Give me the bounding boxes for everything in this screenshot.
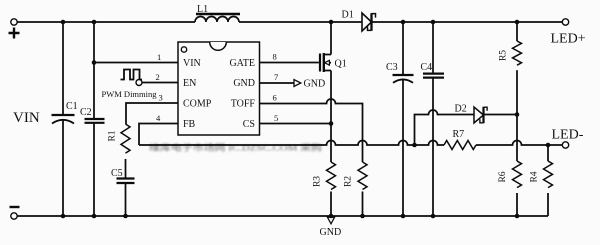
wire pin1 VIN <box>94 62 178 64</box>
svg-text:EN: EN <box>183 78 196 89</box>
wire pin8 GATE <box>260 62 319 64</box>
diode D1 <box>342 10 376 32</box>
node bottom rail R3 <box>329 214 334 219</box>
wire pin2 EN <box>142 82 178 84</box>
ground arrow <box>327 217 334 224</box>
wire top rail mid <box>239 21 362 23</box>
IC U1 box <box>178 42 260 135</box>
wire R7 to LED- <box>476 141 562 146</box>
svg-text:C4: C4 <box>421 62 433 73</box>
IC pin1 indicator dot <box>181 47 186 52</box>
wire pin7 GND <box>260 82 295 84</box>
node D2 cathode on R5 line <box>515 112 520 117</box>
svg-text:Q1: Q1 <box>335 59 347 70</box>
inductor L1 <box>195 4 240 22</box>
node bottom rail R2 <box>360 214 365 219</box>
svg-text:R1: R1 <box>108 130 118 141</box>
svg-text:VIN: VIN <box>183 58 201 69</box>
wire D2 anode branch <box>415 110 475 145</box>
resistor R2 <box>344 162 368 190</box>
wire pin6 TOFF <box>260 99 363 162</box>
terminal LED+ <box>562 19 568 25</box>
capacitor C1 <box>52 22 78 216</box>
terminal VIN- <box>11 213 17 219</box>
svg-text:GND: GND <box>233 78 255 89</box>
node bottom rail C2 <box>92 214 97 219</box>
svg-text:LED+: LED+ <box>551 32 586 47</box>
node D2 anode on FB line <box>412 143 417 148</box>
svg-text:R6: R6 <box>498 171 508 182</box>
svg-text:维库电子市场网 IC.DZSC.COM 采购: 维库电子市场网 IC.DZSC.COM 采购 <box>149 143 322 153</box>
wire Q1 drain to rail <box>330 22 332 55</box>
plus sign <box>9 28 20 39</box>
diode D2 <box>455 104 488 124</box>
svg-text:PWM Dimming: PWM Dimming <box>102 89 158 99</box>
resistor R5 <box>499 22 522 161</box>
terminal LED- <box>562 142 568 148</box>
wire R2 to rail <box>362 192 364 217</box>
minus sign <box>10 206 20 208</box>
resistor R6 <box>498 161 522 216</box>
svg-text:C3: C3 <box>386 62 398 73</box>
wire pin3 COMP <box>126 103 178 124</box>
capacitor C4 <box>421 22 445 216</box>
GND arrow pin7 <box>294 80 301 87</box>
wire FB routing / LED- line <box>139 141 444 146</box>
wire R1 to C5 <box>125 159 127 179</box>
svg-text:R4: R4 <box>530 171 540 182</box>
node top rail C2 <box>92 20 97 25</box>
node top rail R5 <box>515 20 520 25</box>
svg-text:7: 7 <box>274 72 278 82</box>
svg-text:5: 5 <box>274 113 278 123</box>
svg-text:FB: FB <box>183 119 196 130</box>
svg-text:R5: R5 <box>499 50 509 61</box>
svg-text:VIN: VIN <box>13 110 40 126</box>
node bottom rail C3 <box>401 214 406 219</box>
wire Q1 source / CS / R3 vertical <box>330 71 332 163</box>
svg-text:R3: R3 <box>313 176 323 187</box>
svg-text:6: 6 <box>273 93 277 103</box>
svg-text:R2: R2 <box>344 176 354 187</box>
svg-text:GND: GND <box>304 79 326 90</box>
EN input terminal circle <box>136 80 142 86</box>
capacitor C5 <box>111 168 135 216</box>
svg-text:D1: D1 <box>342 10 354 21</box>
wire D2 cathode <box>484 114 518 116</box>
svg-text:LED-: LED- <box>552 128 584 143</box>
resistor R7 <box>444 129 476 150</box>
svg-text:D2: D2 <box>455 104 467 115</box>
node bottom rail C4 <box>431 214 436 219</box>
resistor R4 <box>530 145 553 216</box>
node bottom rail R6 <box>515 214 520 219</box>
svg-text:2: 2 <box>156 72 160 82</box>
resistor R1 <box>108 124 131 153</box>
node top rail C3 <box>401 20 406 25</box>
capacitor C3 <box>386 22 414 216</box>
wire pin5 CS <box>260 123 332 125</box>
node bottom rail C5 <box>123 214 128 219</box>
svg-text:8: 8 <box>273 52 277 62</box>
svg-text:C5: C5 <box>111 168 123 179</box>
node VIN pin tap <box>92 60 97 65</box>
svg-text:3: 3 <box>159 93 163 103</box>
node top rail C1 <box>61 20 66 25</box>
node CS junction <box>329 121 334 126</box>
wire top rail right <box>373 21 563 23</box>
PWM waveform symbol <box>121 70 143 80</box>
svg-text:COMP: COMP <box>183 99 212 110</box>
node top rail C4 <box>431 20 436 25</box>
wire pin4 FB <box>139 124 178 146</box>
IC pin names <box>183 58 255 130</box>
svg-text:C2: C2 <box>80 107 92 118</box>
wire bottom rail <box>17 215 548 217</box>
svg-text:TOFF: TOFF <box>231 99 256 110</box>
node bottom rail C1 <box>61 214 66 219</box>
transistor Q1 <box>320 53 347 72</box>
node R4 top junction <box>546 143 551 148</box>
pin numbers <box>156 52 279 124</box>
IC notch <box>210 42 227 50</box>
svg-text:L1: L1 <box>197 4 208 15</box>
node Q1 drain <box>329 20 334 25</box>
svg-text:C1: C1 <box>66 101 78 112</box>
svg-text:GND: GND <box>320 227 342 238</box>
capacitor C2 <box>80 22 105 216</box>
svg-text:GATE: GATE <box>229 58 255 69</box>
wire top rail left <box>17 21 195 23</box>
wire R3 to rail <box>330 192 332 217</box>
terminal VIN+ <box>11 19 17 25</box>
svg-text:1: 1 <box>157 52 161 62</box>
svg-text:CS: CS <box>243 119 255 130</box>
resistor R3 <box>313 162 336 190</box>
svg-text:R7: R7 <box>453 129 465 140</box>
